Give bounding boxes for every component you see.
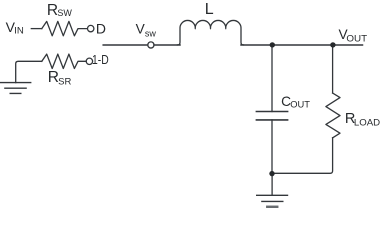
svg-text:LOAD: LOAD	[354, 117, 380, 128]
svg-text:1-D: 1-D	[92, 53, 109, 67]
ground right bottom bar	[267, 206, 277, 209]
wire switch node V_sw	[103, 44, 180, 46]
svg-text:SR: SR	[58, 77, 72, 87]
inductor L	[178, 20, 244, 45]
wire node to ground	[271, 173, 273, 195]
svg-text:OUT: OUT	[346, 34, 367, 44]
resistor R_SW	[42, 21, 88, 35]
ground right	[257, 195, 288, 201]
svg-text:D: D	[96, 21, 106, 37]
node junction dot 2	[330, 42, 335, 47]
terminal D open circle	[88, 25, 94, 31]
node junction dot bottom	[269, 171, 274, 176]
terminal 1-D open circle	[86, 58, 92, 64]
resistor R_LOAD	[326, 93, 340, 138]
svg-text:sw: sw	[145, 29, 157, 39]
node junction dot 1	[270, 42, 275, 47]
wire C_OUT to bottom node	[271, 120, 273, 173]
wire R_LOAD branch	[332, 45, 334, 93]
ground left	[1, 83, 31, 94]
resistor R_SR	[42, 54, 86, 68]
svg-text:IN: IN	[14, 26, 24, 36]
wire V_IN to R_SW	[31, 28, 42, 30]
wire ground to R_SR	[16, 61, 42, 82]
svg-text:OUT: OUT	[290, 100, 310, 110]
svg-text:L: L	[205, 1, 214, 18]
wire R_LOAD to bottom node	[272, 138, 333, 174]
capacitor C_OUT plates	[256, 112, 287, 120]
wire L to V_OUT	[241, 44, 363, 46]
node V_sw open circle	[148, 42, 154, 48]
wire C_OUT branch	[271, 45, 273, 112]
svg-text:SW: SW	[57, 8, 72, 18]
